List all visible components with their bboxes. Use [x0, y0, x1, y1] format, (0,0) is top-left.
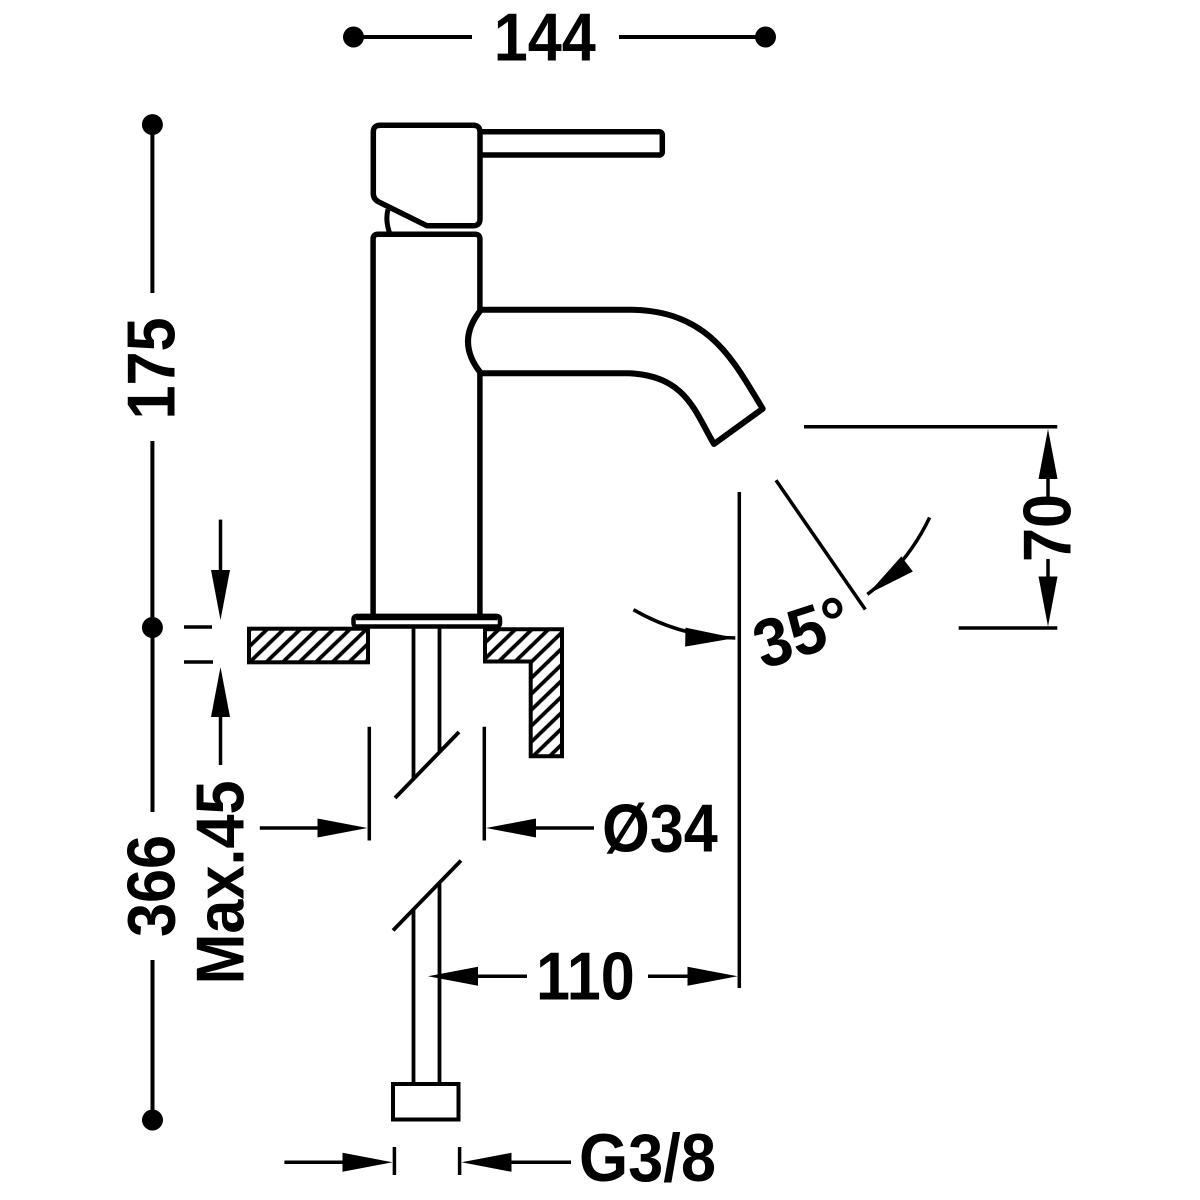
dimension G3/8: right arrowhead pointing left [462, 1153, 512, 1172]
dimension O34: left arrow tail line [260, 826, 322, 830]
dimension 144: left dimension line [354, 35, 473, 39]
dimension 144: value label [494, 0, 596, 75]
dimension 175: top end dot [142, 114, 163, 135]
dimension O34: right arrow tail line [532, 826, 594, 830]
dimension G3/8: left extension tick [393, 1147, 397, 1175]
svg-text:70: 70 [1008, 494, 1085, 562]
dimension 70: lower reference line (counter level) [959, 626, 1058, 630]
dimension 110: right arrowhead pointing right at reference line [688, 967, 738, 986]
threaded rod lower segment: right edge [438, 884, 442, 1085]
dimension 70: up arrowhead [1039, 429, 1058, 479]
dimension O34: left arrowhead pointing right [318, 819, 368, 838]
dimension G3/8: left arrow tail line [284, 1161, 346, 1165]
cartridge arc [387, 210, 390, 235]
threaded rod upper segment: left edge [412, 628, 416, 780]
base flange top edge (thick) [356, 614, 498, 621]
svg-text:G3/8: G3/8 [579, 1120, 716, 1196]
dimension 366: bottom end dot [142, 1110, 163, 1131]
dimension 175: lower dimension line [150, 441, 154, 627]
angle 35: left arc arrow curve [634, 610, 736, 638]
dimension 144: left end dot [343, 27, 364, 48]
dimension Max.45: down arrowhead [211, 570, 230, 620]
angle 35: vertical reference line [738, 492, 742, 988]
dimension 366: upper dimension line [151, 628, 155, 813]
threaded rod lower segment: left edge [412, 910, 416, 1085]
svg-text:144: 144 [494, 0, 596, 75]
break mark 1 [395, 732, 459, 798]
dimension 110: left arrowhead pointing left at rod axis [428, 967, 478, 986]
dimension G3/8: right extension tick [458, 1147, 462, 1175]
dimension G3/8: thread size label [579, 1120, 716, 1196]
break mark 2 [393, 861, 461, 931]
faucet handle lever [476, 132, 662, 155]
dimension Max.45: up arrowhead [211, 667, 230, 717]
dimension Max.45: value label [181, 780, 258, 984]
svg-text:Ø34: Ø34 [602, 789, 718, 866]
dimension O34: value label [602, 789, 718, 866]
svg-text:366: 366 [113, 835, 190, 937]
svg-text:Max.45: Max.45 [181, 780, 258, 984]
dimension 70: value label [1008, 494, 1085, 562]
dimension O34: left extension line [368, 727, 372, 841]
dimension Max.45: upper extension dash (counter top level) [184, 625, 212, 629]
svg-text:175: 175 [113, 317, 190, 419]
faucet body [373, 234, 480, 618]
countertop left slab (hatched section) [249, 629, 368, 663]
dimension G3/8: right arrow tail line [508, 1161, 572, 1165]
base flange plate [354, 616, 501, 627]
dimension 366: lower dimension line [151, 960, 155, 1110]
dimension 175: value label [113, 317, 190, 419]
dimension 110: value label [536, 937, 635, 1014]
dimension 366: value label [113, 835, 190, 937]
dimension 70: lower tail line [1046, 559, 1050, 590]
dimension O34: right arrowhead pointing left [486, 819, 536, 838]
dimension 70: down arrowhead [1039, 577, 1058, 627]
dimension 70: upper reference line (spout outlet level) [804, 425, 1057, 429]
dimension 110: left tail line [474, 974, 527, 978]
spout [468, 310, 763, 444]
dimension 175: upper dimension line [150, 125, 154, 293]
svg-text:110: 110 [536, 937, 635, 1014]
dimension Max.45: lower extension dash (counter bottom level) [184, 660, 213, 664]
dimension G3/8: left arrowhead pointing right [343, 1153, 393, 1172]
dimension 110: right tail line [648, 974, 692, 978]
dimension 144: right end dot [755, 27, 776, 48]
angle 35: right arc arrowhead [862, 556, 913, 602]
dimension 70: upper tail line [1046, 470, 1050, 497]
angle 35: right arc arrow curve [867, 518, 929, 595]
dimension 175: bottom end dot (shared with 366) [142, 617, 163, 638]
G3/8 connector block [393, 1084, 459, 1120]
threaded rod upper segment: right edge [438, 628, 442, 751]
dimension Max.45: upper arrow tail line [219, 520, 223, 580]
dimension 144: right dimension line [619, 35, 766, 39]
dimension O34: right extension line [483, 727, 487, 841]
countertop right slab L-shape (hatched section) [485, 629, 562, 756]
angle 35: left arc arrowhead [685, 628, 735, 648]
faucet head [373, 125, 480, 226]
dimension Max.45: lower arrow tail line [219, 706, 223, 765]
angle 35: slanted spout axis line [776, 480, 865, 609]
angle 35: value label [744, 582, 860, 684]
